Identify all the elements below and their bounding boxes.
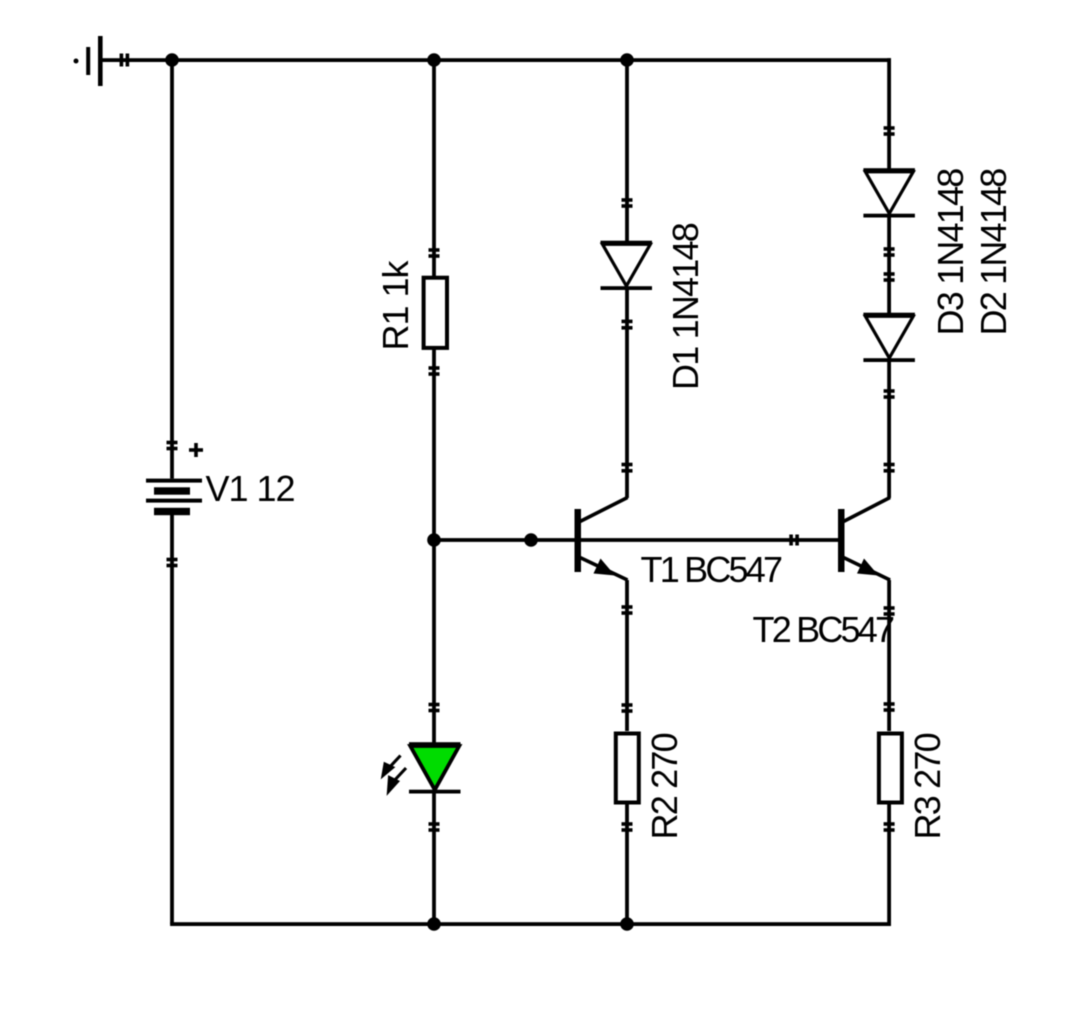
resistor R3 [879, 734, 902, 803]
pin ticks battery plus [167, 441, 178, 451]
wire T1 emitter to R2 [625, 580, 629, 731]
svg-text:R2 270: R2 270 [644, 733, 685, 839]
diode D1 [601, 241, 653, 290]
pin ticks LED top [429, 703, 440, 713]
pin ticks R2 bottom [622, 822, 633, 832]
node junction top R1 branch [427, 53, 441, 67]
node junction bottom LED branch [427, 917, 441, 931]
node junction top battery [165, 53, 179, 67]
pin ticks T2 collector [884, 463, 895, 473]
resistor R2 [616, 734, 639, 803]
pin ticks D2 top [884, 272, 895, 282]
resistor R1 [424, 278, 447, 348]
svg-text:V1 12: V1 12 [206, 468, 295, 509]
node junction middle left [427, 533, 441, 547]
wire top rail [100, 58, 891, 62]
wire battery lower [170, 515, 174, 924]
wire D2 to T2 collector [887, 360, 891, 498]
wire R3 lower [887, 804, 891, 926]
node junction bottom R2 branch [620, 917, 634, 931]
diode D2 [863, 313, 915, 362]
node junction top D1 branch [620, 53, 634, 67]
wire D3 to D2 [887, 217, 891, 314]
pin ticks D1 top [622, 198, 633, 208]
wire T2 emitter to R3 [887, 580, 891, 731]
pin ticks battery minus [167, 558, 178, 568]
wire D1 to T1 collector [625, 288, 629, 498]
LED D4 green [409, 742, 461, 793]
svg-text:T2 BC547: T2 BC547 [753, 609, 894, 650]
diode D3 [863, 168, 915, 217]
pin ticks T2 base [789, 535, 799, 546]
pin ticks T1 emitter [622, 605, 633, 615]
wire LED lower [432, 791, 436, 924]
pin ticks R3 top [884, 702, 895, 712]
pin ticks R2 top [622, 703, 633, 713]
pin ticks D3 top [884, 126, 895, 136]
pin ticks R1 bottom [429, 366, 440, 376]
wire R2 lower [625, 804, 629, 924]
svg-text:T1 BC547: T1 BC547 [641, 549, 782, 590]
wire D1 branch upper [625, 60, 629, 242]
pin ticks ground wire [120, 54, 130, 67]
pin ticks LED bottom [429, 822, 440, 832]
svg-text:R1 1k: R1 1k [375, 259, 416, 350]
wire right branch upper [887, 58, 891, 170]
wire R1 to LED [432, 348, 436, 744]
pin ticks D1 bottom [622, 320, 633, 330]
node junction base wire [524, 533, 538, 547]
pin ticks R3 bottom [884, 822, 895, 832]
pin ticks R1 top [429, 248, 440, 258]
transistor T1 [575, 498, 628, 581]
wire base net [434, 538, 838, 542]
svg-text:D1 1N4148: D1 1N4148 [665, 223, 706, 390]
LED light arrows [383, 756, 406, 792]
pin ticks D3 bottom [884, 247, 895, 257]
wire bottom rail [170, 922, 891, 926]
wire battery upper [170, 60, 174, 479]
pin ticks T2 emitter [884, 606, 895, 616]
pin ticks T1 collector [622, 463, 633, 473]
pin ticks D2 bottom [884, 389, 895, 399]
ground [74, 36, 103, 86]
battery V1 [146, 443, 203, 515]
svg-text:D3 1N4148: D3 1N4148 [930, 169, 971, 336]
transistor T2 [838, 498, 890, 581]
svg-text:D2 1N4148: D2 1N4148 [973, 169, 1014, 336]
svg-text:R3 270: R3 270 [907, 733, 948, 839]
wire R1 branch upper [432, 60, 436, 276]
